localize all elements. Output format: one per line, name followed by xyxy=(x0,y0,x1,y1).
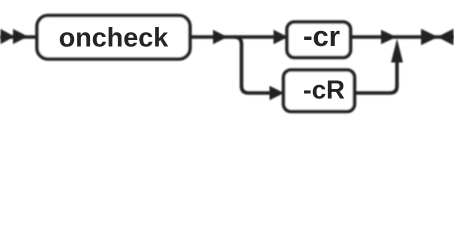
end symbol arrowhead right xyxy=(421,29,438,45)
svg-text:oncheck: oncheck xyxy=(59,23,170,53)
keyword box oncheck xyxy=(37,16,190,60)
svg-text:-cr: -cr xyxy=(303,21,340,53)
end symbol arrowhead left xyxy=(437,29,453,45)
arrowhead after oncheck xyxy=(213,30,228,45)
start symbol arrowhead 1 xyxy=(1,29,15,44)
wire -cR exit up to main line xyxy=(354,61,397,93)
arrowhead before -cr xyxy=(274,30,289,45)
option box -cr xyxy=(287,22,351,58)
arrowhead before -cR xyxy=(270,86,285,101)
option box -cR xyxy=(284,70,355,112)
wire main line xyxy=(0,35,454,39)
wire branch down to -cR xyxy=(235,37,272,93)
arrowhead after -cr xyxy=(381,30,397,45)
svg-text:-cR: -cR xyxy=(303,75,345,105)
start symbol arrowhead 2 xyxy=(13,29,28,44)
arrowhead up merge xyxy=(391,39,403,63)
